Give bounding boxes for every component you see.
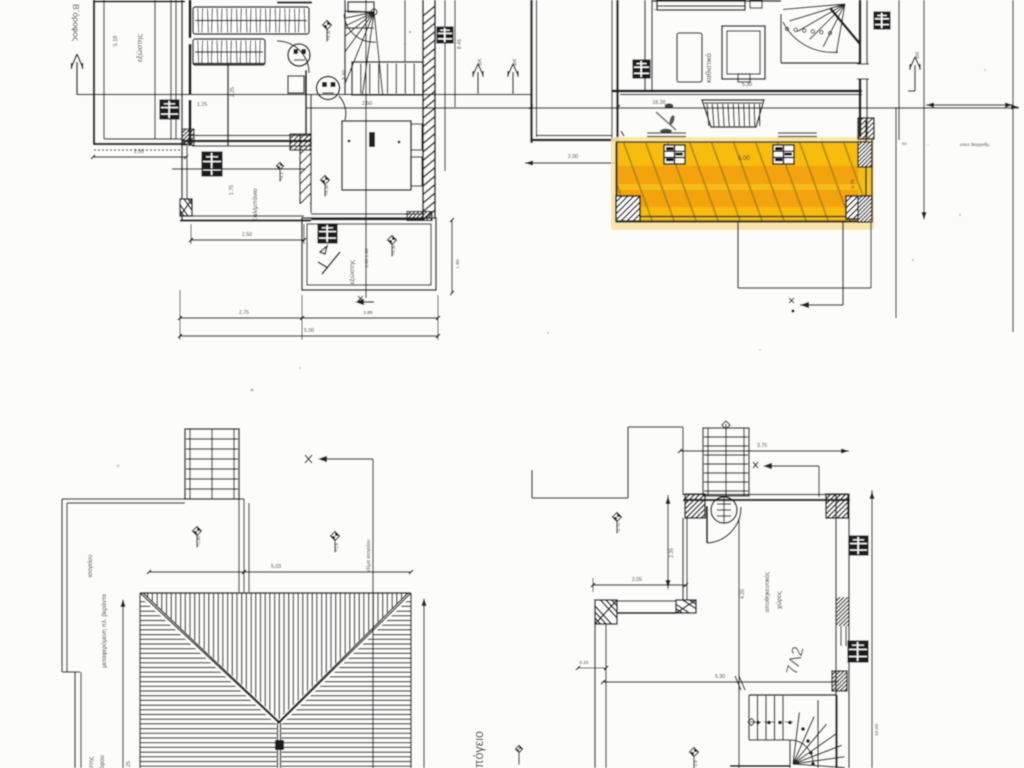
svg-text:2.35: 2.35 bbox=[669, 548, 675, 558]
svg-text:2.00: 2.00 bbox=[568, 154, 578, 160]
svg-text:Β´όροφος: Β´όροφος bbox=[71, 4, 81, 41]
svg-text:+4.30: +4.30 bbox=[324, 184, 329, 195]
svg-text:2.05: 2.05 bbox=[632, 577, 642, 583]
svg-text:Σαλ/μπάνιο: Σαλ/μπάνιο bbox=[251, 188, 259, 221]
svg-text:αποθηκευτικός: αποθηκευτικός bbox=[764, 572, 771, 613]
svg-text:1.25: 1.25 bbox=[197, 102, 207, 108]
svg-text:2.50: 2.50 bbox=[362, 101, 372, 107]
svg-text:1.60: 1.60 bbox=[455, 259, 461, 269]
svg-text:ορόφου: ορόφου bbox=[99, 755, 106, 768]
svg-text:7.25: 7.25 bbox=[126, 761, 132, 768]
svg-text:-0.70: -0.70 bbox=[616, 522, 621, 532]
svg-text:καθιστικό: καθιστικό bbox=[704, 53, 713, 83]
svg-text:2.65 1.65: 2.65 1.65 bbox=[364, 248, 369, 268]
svg-text:εξώστης: εξώστης bbox=[135, 34, 144, 62]
svg-text:+1.80: +1.80 bbox=[196, 535, 201, 546]
svg-text:3.85: 3.85 bbox=[363, 310, 373, 316]
svg-text:5.00: 5.00 bbox=[738, 156, 750, 162]
svg-text:0.25: 0.25 bbox=[580, 660, 589, 665]
svg-text:16.20: 16.20 bbox=[653, 100, 666, 106]
svg-text:εσωτ.διαρρυθμ.: εσωτ.διαρρυθμ. bbox=[960, 142, 991, 147]
svg-text:5.30: 5.30 bbox=[715, 674, 725, 680]
svg-text:υπόγειο: υπόγειο bbox=[472, 731, 486, 768]
svg-text:10.00: 10.00 bbox=[874, 724, 880, 736]
svg-text:2.50: 2.50 bbox=[242, 232, 252, 238]
svg-text:+4.30: +4.30 bbox=[326, 29, 331, 40]
svg-text:εξώστης: εξώστης bbox=[88, 756, 95, 768]
svg-text:2.75: 2.75 bbox=[239, 310, 249, 316]
svg-text:, ,: , , bbox=[926, 141, 929, 146]
svg-text:+1.8: +1.8 bbox=[334, 543, 339, 552]
svg-text:5.03: 5.03 bbox=[271, 564, 281, 570]
svg-text:2.25: 2.25 bbox=[230, 87, 236, 97]
svg-text:μεταφερόμενη πλ. βεράντα: μεταφερόμενη πλ. βεράντα bbox=[101, 594, 108, 668]
svg-text:χώρος: χώρος bbox=[776, 591, 783, 609]
svg-text:3.75: 3.75 bbox=[757, 443, 767, 449]
svg-text:5.18: 5.18 bbox=[113, 36, 119, 47]
svg-text:4.75: 4.75 bbox=[850, 179, 856, 189]
svg-text:4.20: 4.20 bbox=[740, 589, 746, 599]
svg-text:5.00: 5.00 bbox=[304, 328, 314, 334]
svg-text:1.75: 1.75 bbox=[229, 185, 235, 195]
svg-text:κλίμα ισογείου: κλίμα ισογείου bbox=[366, 539, 372, 572]
svg-text:+4.3: +4.3 bbox=[279, 172, 284, 181]
svg-text:εξώστης: εξώστης bbox=[348, 260, 356, 284]
svg-text:50: 50 bbox=[902, 141, 907, 146]
svg-text:ισογείου: ισογείου bbox=[87, 554, 94, 577]
svg-text:5.30: 5.30 bbox=[742, 82, 752, 88]
svg-text:2.00: 2.00 bbox=[134, 149, 144, 155]
svg-text:8.45: 8.45 bbox=[457, 39, 463, 49]
svg-text:+4.30: +4.30 bbox=[391, 244, 396, 255]
svg-text:-2.8: -2.8 bbox=[693, 760, 698, 768]
